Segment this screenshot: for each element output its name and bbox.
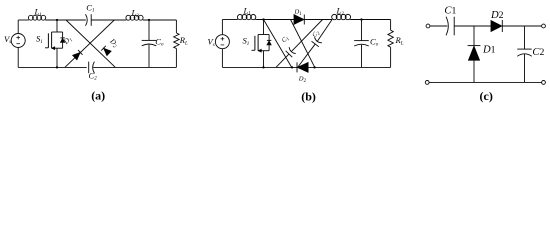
mosfet S1 with body diode (52, 31, 57, 33)
diode D1 (series, top rail, pointing right) (294, 15, 304, 25)
diode D1 (shunt, pointing up) (473, 26, 475, 46)
switch S1 branch wires (56, 20, 58, 32)
node B junction dot (b) (291, 66, 293, 68)
node D (junction dot at S1 source) (56, 66, 58, 68)
output terminal (top right, open circle) (542, 24, 546, 28)
node S1-source junction dot (b) (262, 66, 264, 68)
wire: C1 to D2, through node for D1 (454, 25, 491, 27)
wire+capacitor C1: branch Ra (bottom rail rising to top rail after D1) (276, 54, 289, 67)
bottom rail right segment (93, 66, 176, 68)
capacitor C1 (series, top rail) (86, 14, 88, 26)
voltage source Vs (11, 34, 25, 48)
bottom rail (c) (429, 81, 541, 83)
wire: branch Fb (D1 anode falling to node C) (291, 20, 315, 68)
wire: top rail left (b) (222, 19, 237, 21)
switch S1 branch wires (b) (263, 20, 265, 35)
wire: top rail left (18, 19, 29, 21)
input terminal (top left, open circle) (426, 24, 430, 28)
load resistor RL branch (175, 20, 177, 33)
node C junction dot (b) (313, 66, 315, 68)
inductor L1 (b) (237, 15, 242, 20)
svg-text:(b): (b) (301, 90, 316, 104)
node C (junction dot, output node) (148, 19, 150, 21)
svg-text:D1: D1 (482, 45, 496, 56)
wire: rising diagonal (bottom left to node B side) (65, 20, 115, 67)
wire: falling diagonal (node A side to bottom right) (66, 20, 115, 67)
wire: Vs top (b) (221, 20, 223, 35)
output capacitor Co branch (b) (361, 20, 363, 41)
wire: branch Fa (node A falling to bottom rail left of D2) (264, 20, 292, 68)
wire: L1 to diode D1 (b) (255, 19, 294, 21)
wire: L2 to top-right corner (b) (350, 19, 390, 21)
inductor L2 (b) (332, 14, 337, 19)
diode D1 on rising diagonal (73, 52, 81, 60)
node A junction dot (b) (262, 18, 264, 20)
bottom rail left segment (b) (222, 66, 297, 68)
bottom rail left segment (18, 66, 87, 68)
bottom-left terminal (open circle) (425, 81, 429, 85)
wire: D1 to L2 (b) (304, 19, 332, 21)
mosfet S1 with body diode (b) (258, 34, 263, 36)
svg-text:(c): (c) (480, 89, 493, 103)
capacitor C1 (series), curved left plate (446, 17, 448, 36)
svg-text:D2: D2 (490, 10, 504, 21)
svg-text:(a): (a) (91, 89, 105, 103)
diode D2 (series, pointing right) (491, 20, 502, 31)
wire: C1 to node B (91, 19, 126, 21)
wire: Vs to top-left corner (17, 20, 19, 34)
capacitor C2 (shunt) (524, 26, 526, 49)
voltage source Vs (b) (215, 35, 229, 49)
svg-text:C2: C2 (532, 47, 544, 58)
wire: Vs to bottom-left corner (17, 48, 19, 68)
load resistor RL branch (b) (390, 20, 392, 31)
output capacitor Co branch (148, 20, 150, 40)
svg-text:C1: C1 (444, 6, 456, 17)
diode D2 on falling diagonal (104, 48, 112, 56)
inductor L1 (28, 15, 33, 20)
wire: L1 to node A (45, 19, 86, 21)
wire: L2 to top-right corner (143, 19, 177, 21)
wire: D2 to right terminal, through node for C2 (502, 25, 541, 27)
inductor L2 (126, 15, 131, 20)
wire+capacitor C2: branch Rb (node B rising to L2 input) (298, 44, 316, 67)
node A (junction dot after L1) (56, 19, 58, 21)
capacitor C2 (series, bottom rail) (88, 62, 90, 74)
wire: Vs bottom (b) (221, 49, 223, 68)
diode D2 (series, bottom rail, pointing left) (296, 62, 298, 72)
bottom rail right segment (b) (308, 66, 390, 68)
bottom-right terminal (open circle) (542, 81, 546, 85)
node G junction dot (b) (360, 18, 362, 20)
wire: terminal to C1 (430, 25, 447, 27)
